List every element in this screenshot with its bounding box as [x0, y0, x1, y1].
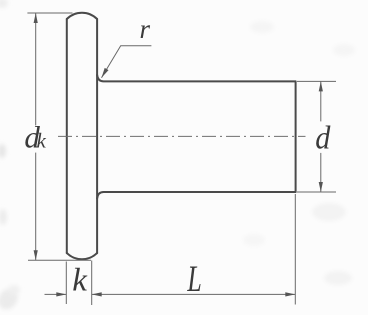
dimensions k and L: arrowheads	[56, 292, 66, 296]
centerline (axis, dash-dot)	[58, 135, 306, 137]
rivet head outline (dk diameter)	[67, 13, 97, 260]
dimension dk: arrowheads	[34, 13, 38, 23]
svg-text:k: k	[37, 129, 47, 153]
rivet shank outline with fillet r	[97, 75, 296, 199]
dimension dk: extension and dimension lines	[27, 13, 91, 260]
svg-text:r: r	[140, 14, 151, 44]
dimension d: arrowheads	[319, 81, 323, 91]
svg-text:k: k	[72, 263, 88, 299]
svg-text:d: d	[315, 120, 330, 156]
leader line for fillet r with arrowhead	[102, 46, 152, 78]
dimension d: extension and dimension lines	[297, 81, 336, 192]
dimensions k and L: extension and dimension lines	[45, 194, 296, 305]
svg-text:L: L	[187, 259, 202, 300]
